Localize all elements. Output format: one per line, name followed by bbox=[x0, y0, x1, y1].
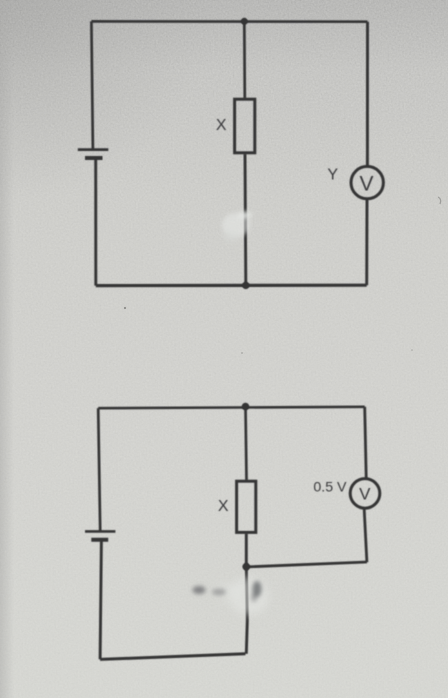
wire junction to voltmeter bottom (circuit 2) bbox=[246, 562, 367, 567]
junction node top (circuit 2) bbox=[242, 403, 250, 411]
voltmeter V2 (circuit 2) body bbox=[350, 479, 380, 509]
cell B2 short plate bbox=[91, 538, 108, 542]
junction node middle (circuit 2) bbox=[242, 563, 250, 571]
junction node bottom (circuit 1) bbox=[242, 282, 249, 289]
cell B1 short plate bbox=[85, 156, 103, 160]
svg-text:X: X bbox=[218, 498, 229, 515]
wire right lower (circuit 2, voltmeter bottom lead) bbox=[364, 510, 367, 563]
svg-text:V: V bbox=[359, 485, 371, 504]
wire top (circuit 1) bbox=[91, 20, 367, 23]
voltmeter V1 (circuit 1) body bbox=[351, 166, 383, 198]
CIRCUIT 1 (top) bbox=[78, 21, 384, 285]
svg-text:Y: Y bbox=[327, 167, 338, 184]
wire right upper (circuit 2, voltmeter top lead) bbox=[365, 407, 367, 478]
resistor X (circuit 2) bbox=[237, 481, 256, 532]
wire right lower (circuit 1, voltmeter bottom lead) bbox=[365, 200, 368, 285]
wire top (circuit 2) bbox=[98, 407, 365, 408]
wire left lower (circuit 2, battery bottom lead) bbox=[100, 540, 101, 660]
wire left upper (circuit 2, battery top lead) bbox=[98, 408, 100, 531]
wire middle mid (circuit 2, resistor X to junction) bbox=[245, 534, 248, 567]
wire middle upper (circuit 2, to resistor X) bbox=[246, 406, 247, 480]
stray specks bbox=[124, 197, 441, 354]
wire middle lower (circuit 1, resistor X to bottom junction) bbox=[244, 154, 248, 285]
junction node top (circuit 1) bbox=[241, 18, 248, 25]
svg-text:0.5 V: 0.5 V bbox=[313, 480, 347, 496]
wire left upper (circuit 1, battery top lead) bbox=[91, 21, 93, 149]
wire bottom (circuit 2) bbox=[100, 654, 245, 660]
wire middle lower (circuit 2, junction to bottom wire) bbox=[246, 567, 247, 654]
cell B1 long plate bbox=[78, 148, 109, 151]
pencil smudge marks (circuit 2, erased) bbox=[193, 577, 270, 615]
cell B2 long plate bbox=[85, 530, 115, 533]
wire right upper (circuit 1, voltmeter top lead) bbox=[366, 22, 369, 166]
wire left lower (circuit 1, battery bottom lead) bbox=[94, 158, 97, 286]
svg-text:V: V bbox=[359, 173, 373, 196]
svg-text:X: X bbox=[216, 117, 227, 134]
correction-fluid smudge (circuit 1) bbox=[222, 211, 252, 242]
resistor X (circuit 1) bbox=[235, 99, 255, 153]
wire bottom (circuit 1) bbox=[96, 284, 367, 288]
CIRCUIT 2 (bottom) bbox=[85, 406, 380, 659]
wire middle upper (circuit 1, to resistor X) bbox=[243, 21, 246, 98]
